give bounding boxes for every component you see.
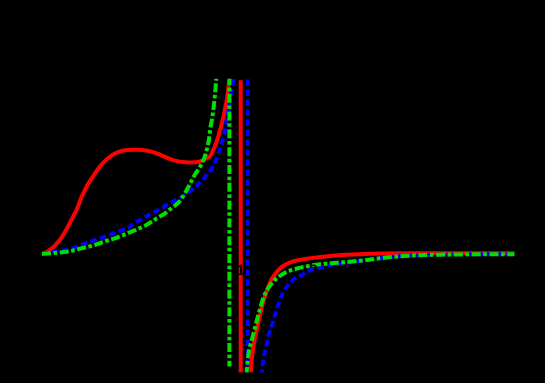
green asymptote jump line [227, 76, 231, 367]
svg-text:1: 1 [237, 263, 245, 279]
green curve right branch [246, 254, 514, 376]
red curve right branch [250, 253, 514, 376]
blue curve right branch [261, 254, 514, 376]
red asymptote jump line [239, 80, 243, 376]
svg-text:2: 2 [310, 263, 318, 279]
green curve left branch [42, 76, 217, 254]
red curve left branch [42, 76, 230, 254]
blue curve left branch [42, 76, 234, 253]
blue asymptote jump line [246, 79, 250, 376]
